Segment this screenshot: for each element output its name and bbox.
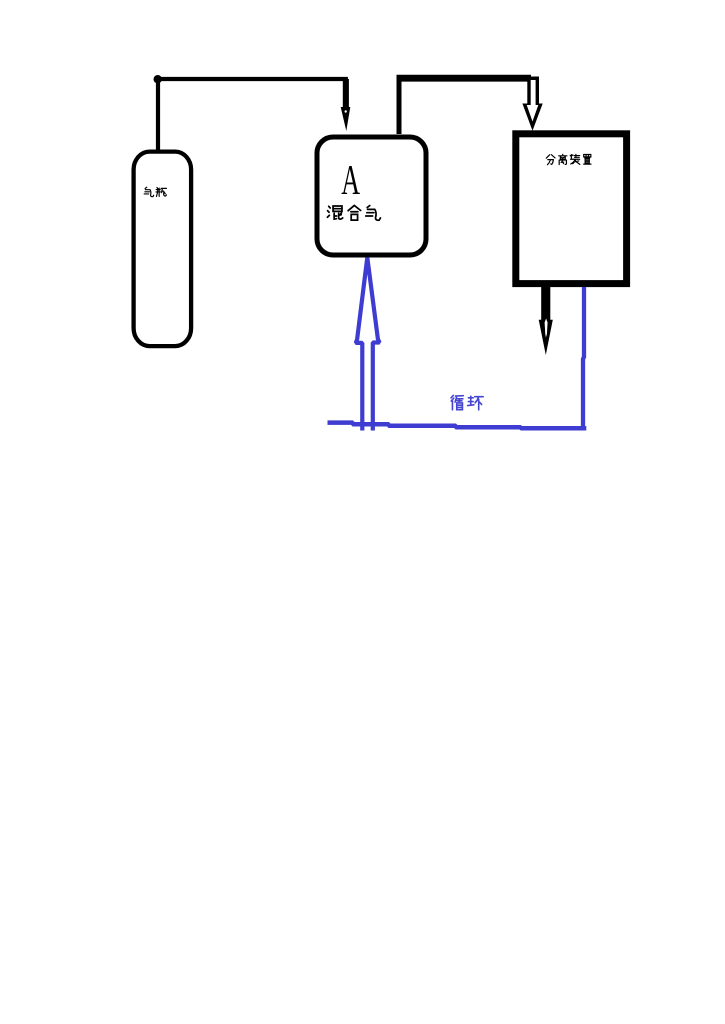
gas cylinder 气瓶 — [134, 152, 192, 347]
solid outlet arrowhead — [539, 320, 553, 355]
hollow arrow into separator (outer) — [522, 77, 542, 131]
separator box 分离装置 — [516, 134, 627, 284]
blue hollow recycle arrow into mixer bottom — [356, 258, 380, 431]
label 气瓶 — [144, 187, 166, 196]
svg-text:A: A — [341, 157, 360, 204]
label 分离装置 — [546, 154, 591, 164]
inlet pipe shaft into mixer — [343, 79, 349, 108]
wire: junction to mixer inlet — [158, 79, 346, 106]
hollow arrow into separator (inner white) — [527, 80, 539, 122]
blue return pipe: bottom horizontal run — [328, 423, 587, 429]
wire: cylinder to junction — [156, 79, 160, 152]
label 混合气 — [327, 205, 380, 220]
label 循环 — [451, 395, 483, 409]
mixing box A 混合气 — [317, 137, 426, 255]
white slit inside outlet arrowhead — [545, 319, 548, 338]
blue return pipe: separator side (vertical) — [583, 287, 584, 428]
wire: mixer top to separator inlet — [399, 79, 531, 134]
solid tapered arrowhead into mixer — [341, 107, 351, 131]
junction dot — [154, 75, 162, 83]
outlet pipe from separator bottom — [541, 285, 550, 320]
